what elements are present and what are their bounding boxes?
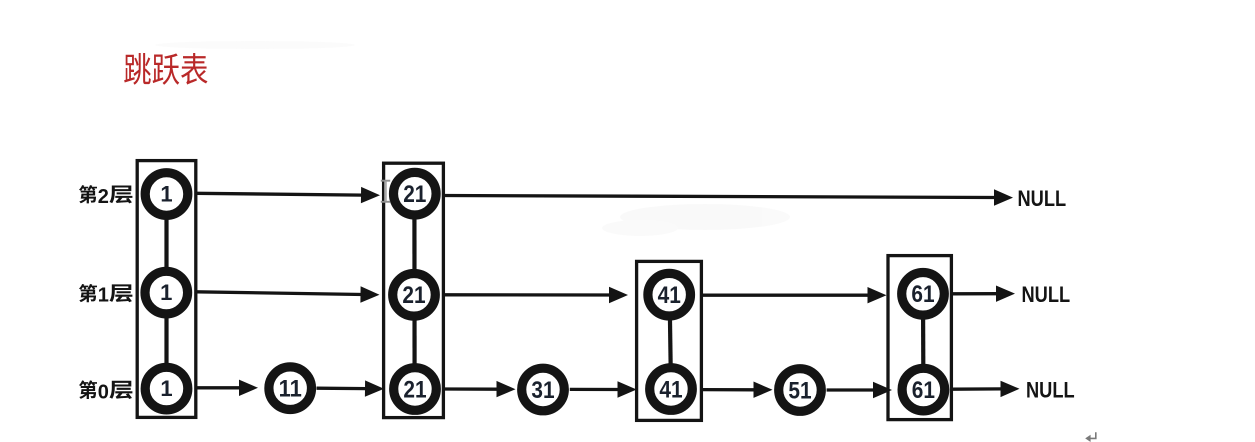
svg-text:1: 1 [160, 376, 172, 401]
svg-text:21: 21 [403, 181, 426, 208]
svg-text:41: 41 [658, 282, 681, 309]
svg-text:41: 41 [659, 376, 682, 403]
svg-text:1: 1 [160, 182, 172, 207]
svg-text:61: 61 [911, 281, 934, 308]
svg-text:61: 61 [912, 377, 935, 404]
svg-text:0: 0 [98, 382, 109, 404]
svg-text:NULL: NULL [1022, 282, 1071, 307]
svg-text:21: 21 [402, 282, 425, 309]
svg-text:2: 2 [98, 186, 109, 208]
svg-text:1: 1 [160, 280, 172, 305]
svg-text:11: 11 [279, 376, 302, 403]
svg-text:21: 21 [403, 376, 426, 403]
svg-text:NULL: NULL [1018, 186, 1067, 211]
svg-text:NULL: NULL [1026, 378, 1075, 403]
svg-text:31: 31 [531, 377, 554, 404]
svg-text:51: 51 [788, 377, 811, 404]
svg-text:1: 1 [98, 285, 109, 307]
